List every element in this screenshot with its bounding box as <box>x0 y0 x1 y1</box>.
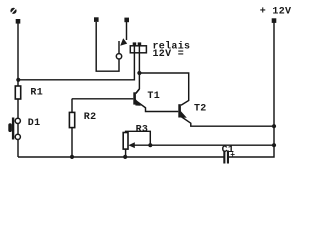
svg-text:R3: R3 <box>136 124 149 135</box>
svg-text:D1: D1 <box>28 118 41 129</box>
svg-text:R1: R1 <box>30 88 43 99</box>
svg-text:+ 12V: + 12V <box>260 7 292 18</box>
svg-text:T2: T2 <box>194 103 207 114</box>
svg-text:R2: R2 <box>84 112 97 123</box>
svg-text:T1: T1 <box>147 91 160 102</box>
svg-text:+: + <box>230 151 235 160</box>
svg-text:12V =: 12V = <box>153 49 185 60</box>
